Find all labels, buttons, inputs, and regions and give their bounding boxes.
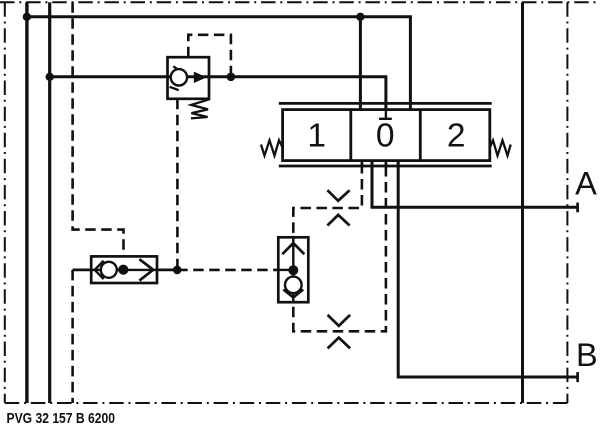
relief valve RV1 spring — [191, 99, 209, 118]
wire T return gallery vertical right — [521, 2, 524, 403]
directional valve DV1 bottom rail — [279, 165, 492, 168]
wire P gallery vertical — [25, 2, 28, 403]
svg-text:A: A — [575, 166, 597, 202]
wire LS dashed vertical upper, to pilot of check valve V1 — [73, 2, 124, 256]
restrictor O1 lower chevron — [327, 215, 349, 226]
relief valve RV1 flow arrow — [194, 72, 207, 83]
check valve V2 seat chevron — [283, 290, 303, 298]
wire dashed from spool via restrictor O2 to check valve V2 bottom — [293, 166, 386, 331]
directional valve DV1 spool box outline — [283, 110, 490, 161]
module boundary chain border left — [4, 2, 6, 403]
module boundary chain border right — [566, 2, 568, 403]
relief valve RV1 body box — [168, 57, 210, 99]
wire LS stub from dashed gallery to check valve V1 — [73, 269, 92, 272]
directional valve DV1 box divider left — [349, 110, 352, 161]
wire spool bottom stubs through rail — [362, 161, 398, 166]
directional valve DV1 spring left — [261, 140, 283, 155]
wire P supply to spool top port — [27, 17, 411, 110]
wire from check valve V1 to LS node — [157, 269, 177, 272]
svg-text:PVG 32 157 B 6200: PVG 32 157 B 6200 — [7, 410, 116, 425]
check valve V1 poppet circle — [101, 262, 117, 278]
check valve V2 poppet circle — [285, 277, 302, 294]
directional valve DV1 spring right — [490, 140, 511, 155]
directional valve DV1 box divider right — [419, 110, 422, 161]
svg-text:1: 1 — [307, 118, 326, 155]
module boundary chain border top — [0, 1, 600, 3]
module boundary chain border bottom — [5, 402, 568, 404]
check valve V2 ball — [288, 265, 298, 275]
check valve V1 seat chevron — [95, 261, 104, 279]
node junction dot T x relief line — [46, 73, 54, 81]
wire dashed pilot from spool via restrictor O1 to check valve V2 top — [293, 166, 362, 237]
check valve V1 body box — [91, 256, 157, 283]
wire pump line through relief valve to spool mid port — [50, 77, 386, 110]
check valve V1 flow line — [91, 269, 157, 271]
port B end tick — [576, 372, 579, 382]
directional valve DV1 blocked port symbol in box 0 — [379, 110, 392, 119]
check valve V1 flow arrow chevron — [139, 259, 153, 280]
check valve V1 ball — [118, 265, 128, 275]
wire branch from node N1 down to spool — [359, 17, 362, 110]
svg-text:0: 0 — [376, 118, 395, 155]
check valve V2 side line to ball — [278, 269, 289, 271]
wire relief valve pilot drain dashed down to LS node — [176, 99, 179, 270]
check valve V2 up arrow chevron — [282, 243, 304, 254]
node N1 junction dot on top line — [356, 13, 364, 21]
wire port B from spool — [398, 161, 577, 377]
node LS junction dot — [173, 266, 182, 275]
check valve V2 internal vertical line — [292, 237, 294, 302]
relief valve RV1 poppet circle — [171, 69, 187, 85]
node junction dot pilot x output line — [227, 73, 236, 82]
relief valve RV1 pilot dashed loop to output — [188, 35, 231, 77]
restrictor O2 upper chevron — [328, 315, 351, 326]
wire port A from spool — [372, 161, 578, 208]
svg-text:2: 2 — [447, 118, 466, 155]
check valve V2 body box — [278, 237, 308, 302]
wire LS dashed to check valve V2 side — [177, 269, 278, 272]
node junction dot P x top line — [23, 13, 31, 21]
relief valve RV1 seat ticks — [170, 66, 181, 90]
restrictor O2 lower chevron — [328, 338, 351, 349]
wire T gallery vertical — [48, 2, 51, 403]
restrictor O1 upper chevron — [327, 190, 349, 201]
wire LS dashed vertical lower — [71, 270, 74, 403]
port A end tick — [576, 203, 579, 213]
directional valve DV1 top rail — [279, 102, 492, 105]
svg-text:B: B — [576, 337, 598, 373]
